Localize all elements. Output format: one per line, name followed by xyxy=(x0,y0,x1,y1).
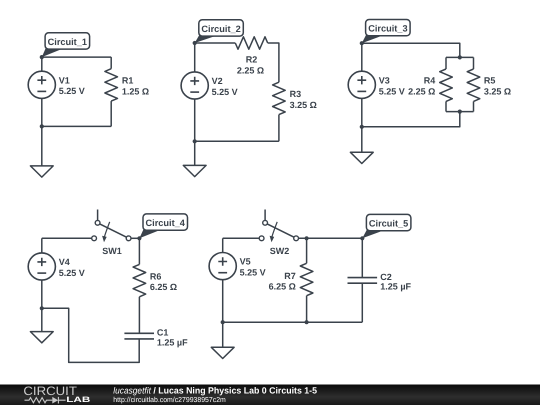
node circuit5 R7 top junction xyxy=(305,236,309,240)
wire R7 top lead xyxy=(306,238,308,263)
node circuit2 bottom junction xyxy=(193,139,197,143)
svg-text:Circuit_4: Circuit_4 xyxy=(146,218,186,228)
svg-text:6.25 Ω: 6.25 Ω xyxy=(150,282,177,292)
wire C2 top lead xyxy=(361,238,363,277)
wire circuit5 bottom rail xyxy=(223,321,363,323)
svg-text:R1: R1 xyxy=(122,76,134,86)
wire R1 top lead xyxy=(110,57,112,69)
svg-text:Circuit_2: Circuit_2 xyxy=(201,24,240,34)
svg-text:2.25 Ω: 2.25 Ω xyxy=(408,86,435,96)
wire V5 bottom lead xyxy=(222,280,224,323)
callout label Circuit_4 xyxy=(139,214,187,238)
wire circuit3 bottom rail xyxy=(362,112,460,127)
node circuit4 top node xyxy=(137,236,141,240)
switch SW2 xyxy=(259,210,298,257)
wire to ground 5 xyxy=(222,322,224,347)
svg-text:5.25 V: 5.25 V xyxy=(240,268,266,278)
node circuit1 bottom junction xyxy=(40,124,44,128)
svg-text:1.25 Ω: 1.25 Ω xyxy=(122,86,149,96)
svg-text:5.25 V: 5.25 V xyxy=(212,87,238,97)
wire SW1 to node xyxy=(131,237,139,239)
wire parallel top bar xyxy=(446,56,474,58)
ground GND circuit1 xyxy=(30,166,53,177)
ground GND circuit5 xyxy=(211,347,234,358)
wire V1 bottom lead xyxy=(41,98,43,126)
svg-text:R3: R3 xyxy=(290,89,302,99)
wire V4 bottom lead xyxy=(41,280,43,308)
wire R7 bottom lead xyxy=(306,296,308,323)
wire SW2 to C2 node xyxy=(299,237,363,239)
wire circuit2 bottom rail xyxy=(195,140,279,142)
svg-text:Circuit_5: Circuit_5 xyxy=(369,219,408,229)
resistor R5 xyxy=(467,69,480,101)
wire R6 to C1 xyxy=(138,297,140,334)
svg-text:3.25 Ω: 3.25 Ω xyxy=(290,100,317,110)
callout label Circuit_3 xyxy=(362,20,410,44)
svg-text:1.25 µF: 1.25 µF xyxy=(157,337,188,347)
svg-text:C1: C1 xyxy=(157,327,169,337)
voltage source V1 xyxy=(28,71,55,98)
svg-text:LAB: LAB xyxy=(66,395,91,404)
node circuit5 bottom junction xyxy=(221,320,225,324)
svg-text:V1: V1 xyxy=(59,75,70,85)
resistor R7 xyxy=(300,263,313,295)
svg-text:R5: R5 xyxy=(484,76,496,86)
wire V2 top lead xyxy=(194,43,196,72)
callout label Circuit_1 xyxy=(42,33,90,57)
resistor R4 xyxy=(440,69,453,101)
wire C1 bottom loop xyxy=(42,308,139,362)
wire circuit1 top rail xyxy=(42,56,111,58)
capacitor C1 xyxy=(124,333,154,339)
node circuit5 top node xyxy=(360,236,364,240)
resistor R6 xyxy=(133,264,146,296)
node circuit3 top node xyxy=(360,41,364,45)
wire V5 to SW2 xyxy=(223,237,260,239)
node circuit4 bottom junction xyxy=(40,306,44,310)
wire V3 top lead xyxy=(361,43,363,71)
node circuit3 bottom junction xyxy=(360,125,364,129)
wire R5 top lead xyxy=(473,57,475,69)
voltage source V3 xyxy=(348,71,375,98)
ground GND circuit3 xyxy=(350,152,373,163)
svg-text:R6: R6 xyxy=(150,271,162,281)
wire V3 bottom lead xyxy=(361,98,363,126)
svg-text:SW1: SW1 xyxy=(102,246,122,256)
svg-text:Circuit_1: Circuit_1 xyxy=(48,37,87,47)
voltage source V4 xyxy=(28,253,55,280)
wire circuit1 bottom rail xyxy=(42,125,111,127)
svg-text:R4: R4 xyxy=(424,76,436,86)
ground GND circuit2 xyxy=(183,165,206,176)
wire C2 bottom lead xyxy=(361,283,363,322)
wire V4 top lead xyxy=(41,238,43,253)
svg-text:SW2: SW2 xyxy=(270,246,290,256)
wire circuit3 top rail xyxy=(362,43,460,57)
wire R5 bottom lead xyxy=(473,101,475,111)
wire R4 bottom lead xyxy=(445,101,447,111)
resistor R3 xyxy=(273,82,286,114)
CircuitLab logo xyxy=(23,384,90,404)
wire V2 bottom lead xyxy=(194,99,196,141)
wire V1 top lead xyxy=(41,57,43,71)
wire V5 top lead xyxy=(222,238,224,252)
switch SW1 xyxy=(92,210,131,257)
svg-text:3.25 Ω: 3.25 Ω xyxy=(484,86,511,96)
svg-text:2.25 Ω: 2.25 Ω xyxy=(237,65,264,75)
node circuit3 parallel bottom junction xyxy=(458,110,462,114)
wire V4 to SW1 xyxy=(42,237,92,239)
wire R2 to R3 xyxy=(268,43,279,82)
node circuit3 parallel top junction xyxy=(458,55,462,59)
node circuit5 R7 bottom junction xyxy=(305,320,309,324)
svg-text:http://circuitlab.com/c2799389: http://circuitlab.com/c279938957c2m xyxy=(113,395,226,404)
svg-text:C2: C2 xyxy=(380,272,392,282)
voltage source V2 xyxy=(181,72,208,99)
capacitor C2 xyxy=(348,278,378,284)
node circuit2 top node xyxy=(193,41,197,45)
svg-text:V2: V2 xyxy=(212,76,223,86)
wire circuit2 top rail left xyxy=(195,42,236,44)
svg-text:R7: R7 xyxy=(284,271,296,281)
voltage source V5 xyxy=(209,253,236,280)
wire R6 top lead xyxy=(138,238,140,264)
svg-text:Circuit_3: Circuit_3 xyxy=(368,24,407,34)
wire parallel bottom bar xyxy=(446,111,474,113)
callout label Circuit_2 xyxy=(195,20,244,43)
node circuit1 top node xyxy=(40,55,44,59)
svg-text:1.25 µF: 1.25 µF xyxy=(380,282,411,292)
svg-text:5.25 V: 5.25 V xyxy=(379,86,405,96)
svg-text:V3: V3 xyxy=(379,76,390,86)
resistor R1 xyxy=(105,69,118,101)
svg-text:6.25 Ω: 6.25 Ω xyxy=(269,282,296,292)
svg-text:R2: R2 xyxy=(246,54,258,64)
ground GND circuit4 xyxy=(30,332,53,343)
wire to ground 3 xyxy=(361,127,363,153)
wire R1 bottom lead xyxy=(110,101,112,126)
wire to ground 4 xyxy=(41,308,43,331)
svg-text:5.25 V: 5.25 V xyxy=(59,268,85,278)
svg-text:V5: V5 xyxy=(240,257,251,267)
wire R4 top lead xyxy=(445,57,447,69)
wire R3 bottom lead xyxy=(278,115,280,142)
svg-text:5.25 V: 5.25 V xyxy=(59,86,85,96)
svg-text:V4: V4 xyxy=(59,257,70,267)
wire to ground 2 xyxy=(194,141,196,165)
resistor R2 xyxy=(235,37,267,49)
callout label Circuit_5 xyxy=(362,214,411,238)
wire to ground 1 xyxy=(41,126,43,165)
